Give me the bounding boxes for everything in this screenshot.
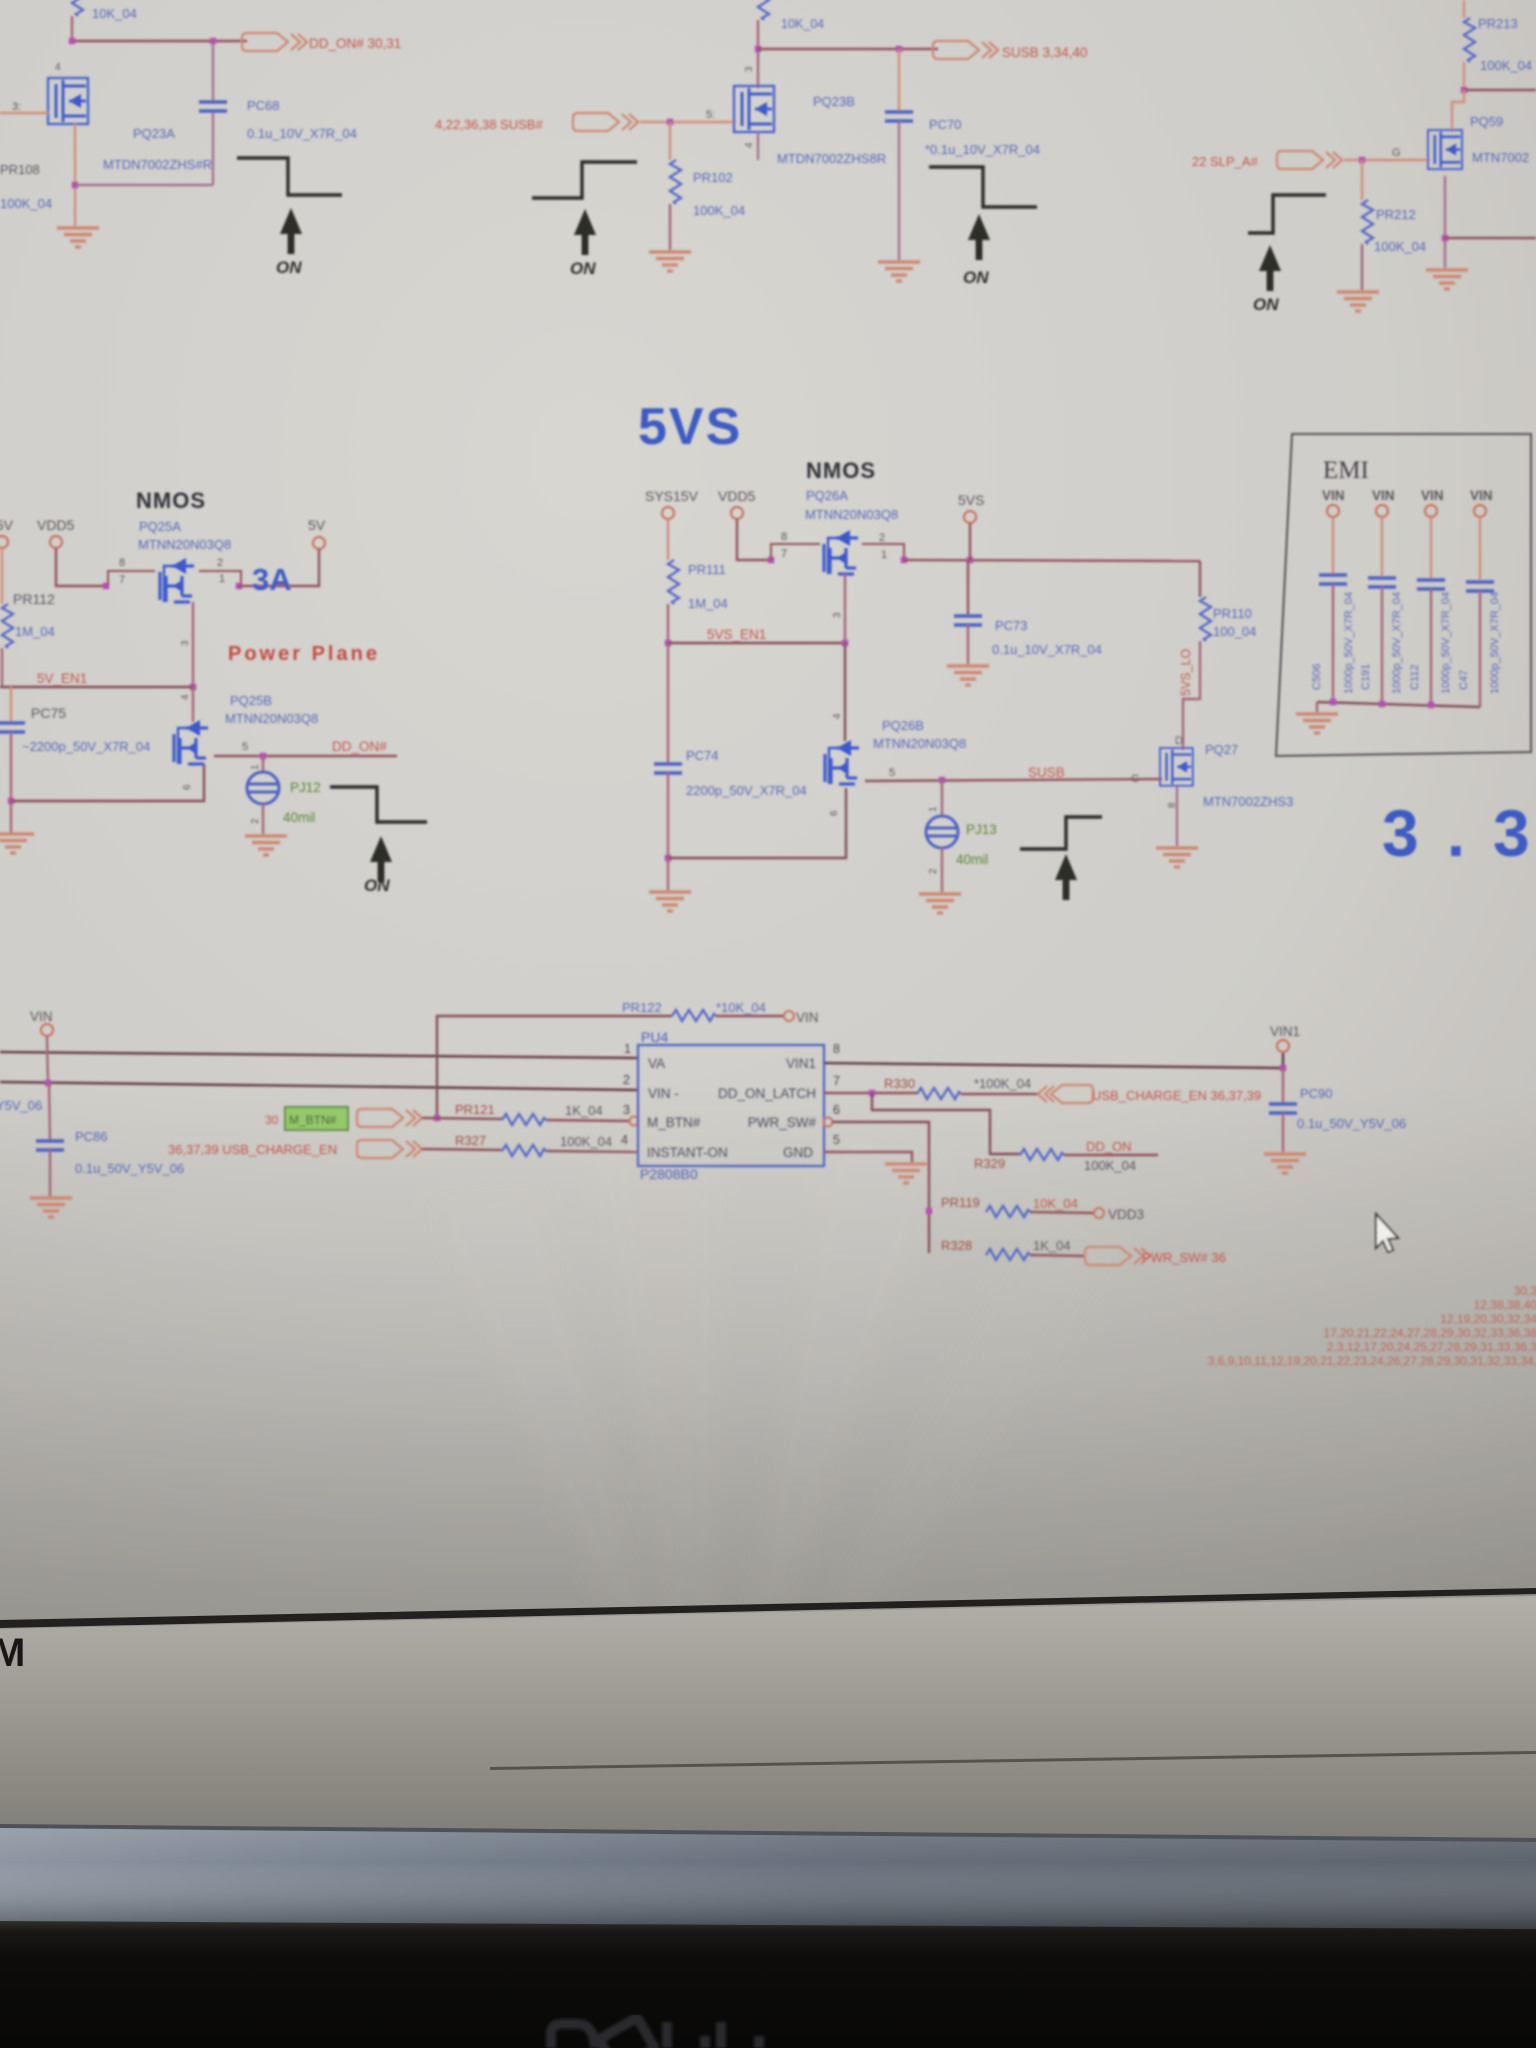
connector SUSB out	[933, 41, 1088, 60]
connector SUSB# input	[573, 113, 638, 131]
capacitor PC68	[199, 98, 357, 141]
terminal SYS15V	[662, 507, 674, 519]
wire cap bottom vertical	[212, 112, 214, 185]
ground PC90	[1264, 1154, 1306, 1173]
resistor R328	[941, 1238, 1085, 1260]
node junction PC74 bottom	[665, 855, 671, 861]
waveform falling edge C	[929, 167, 1037, 207]
node junction B	[755, 46, 761, 52]
wire R329 branch	[872, 1093, 1020, 1154]
window bottom edge dark line	[0, 1588, 1536, 1628]
wire vertical to rail	[757, 20, 759, 88]
capacitor PC75	[0, 687, 150, 801]
resistor PR108 labels	[0, 162, 52, 211]
resistor PR213 top right	[1464, 0, 1532, 90]
svg-text:M: M	[0, 1631, 25, 1675]
resistor PR102	[670, 122, 745, 250]
capacitor PC90	[1269, 1068, 1406, 1152]
node junction rail right	[901, 557, 907, 563]
net highlight M_BTN#	[265, 1107, 348, 1130]
pin numbers PQ25A	[119, 557, 225, 586]
resistor PR111	[668, 519, 728, 643]
wire source right	[1445, 237, 1536, 239]
waveform falling edge E	[330, 787, 427, 822]
node junction 5v loop	[236, 583, 242, 589]
resistor R327	[455, 1133, 638, 1156]
terminal VIN1	[1270, 1024, 1300, 1052]
node junction 5VS term	[967, 557, 973, 563]
wire 5VS rail	[904, 560, 1200, 561]
pin labels PU4 left	[647, 1056, 728, 1160]
connector M_BTN#	[357, 1109, 422, 1127]
wire PQ25A drain down	[192, 602, 194, 687]
ON arrow F	[1055, 854, 1077, 900]
wire bottom loop	[75, 184, 213, 186]
node junction gate PQ26B	[842, 640, 848, 646]
taskbar band	[0, 1826, 1536, 1930]
wire pin8 VIN1	[824, 1052, 1283, 1068]
EMI box frame	[1276, 434, 1531, 756]
terminal 15V	[0, 536, 8, 548]
node junction right rail	[1461, 87, 1467, 93]
waveform falling edge A	[237, 158, 342, 195]
wire pin1 bus	[0, 1052, 638, 1058]
wire net 5V_EN1	[0, 686, 193, 689]
terminal VIN 4	[1474, 505, 1486, 517]
wire PQ25B drain right	[214, 755, 397, 757]
node junction left	[69, 38, 75, 44]
ON arrow D	[1259, 245, 1281, 291]
transistor PQ27	[1131, 742, 1293, 809]
capacitor C191	[1360, 517, 1403, 704]
wire PQ23B down	[757, 132, 759, 160]
ON arrow E	[370, 836, 392, 882]
ground PC86	[30, 1198, 72, 1217]
capacitor PC86	[36, 1083, 184, 1197]
wire PC70 down	[898, 121, 900, 260]
schematic layer inserted here	[0, 0, 1536, 1368]
ground PC74	[649, 892, 691, 911]
node junction bus 3	[1428, 702, 1434, 708]
wire 5VS terminal stub	[969, 523, 971, 560]
wire net 5VS_EN1	[668, 642, 845, 645]
node junction PC75 bottom	[8, 798, 14, 804]
wire top-left horizontal	[72, 40, 247, 42]
monitor bezel	[0, 1921, 1536, 2048]
terminal 5V	[313, 537, 325, 549]
ground PR212	[1337, 292, 1379, 311]
DELL logo (partially cut at bottom)	[551, 2017, 759, 2048]
sheet reference list	[1208, 1284, 1536, 1368]
pin bubble 6	[824, 1118, 833, 1127]
resistor PR112 labels	[13, 591, 55, 639]
pin numbers PU4	[621, 1042, 840, 1147]
terminal VDD3	[1094, 1207, 1144, 1222]
ground EMI	[1296, 714, 1338, 733]
wire M_BTN#	[422, 1118, 502, 1119]
transistor PQ26B	[825, 718, 966, 816]
ON arrow C	[968, 214, 990, 260]
wire pin2 bus	[0, 1082, 638, 1090]
via PJ13	[926, 780, 997, 892]
op-amp PU4 box	[638, 1029, 824, 1182]
wire pin6 down	[832, 1122, 929, 1253]
wire PC74 ground	[667, 858, 669, 890]
node 15V VDD5 labels	[0, 517, 75, 533]
resistor top (10K_04)	[758, 0, 824, 31]
resistor top-left (10K_04)	[72, 0, 137, 21]
node junction vdd5	[103, 583, 109, 589]
wire down to PQ59	[1452, 90, 1464, 132]
transistor PQ26A	[824, 530, 858, 574]
wire USB_CHARGE_EN	[422, 1149, 502, 1150]
wire top-left vertical	[71, 16, 73, 41]
terminal VIN 3	[1425, 505, 1437, 517]
node junction bus 1	[1330, 699, 1336, 705]
mouse cursor	[1376, 1214, 1398, 1252]
capacitor PC70	[885, 112, 1040, 157]
wire gate B	[640, 121, 736, 123]
wire mosfet A down	[74, 124, 76, 226]
node junction PJ13	[939, 777, 945, 783]
ground PC70	[878, 262, 920, 281]
light streaks	[420, 1120, 1140, 1800]
pin loop right PQ25A	[199, 571, 241, 586]
connector USB_CHARGE_EN out	[1038, 1085, 1093, 1103]
ground PQ27	[1156, 848, 1198, 867]
ground PU4	[885, 1164, 927, 1183]
waveform rising edge F	[1020, 817, 1102, 849]
terminal VIN 2	[1376, 505, 1388, 517]
waveform rising edge D	[1248, 195, 1326, 233]
pin labels PU4 right	[718, 1056, 817, 1160]
wire PQ59 source down	[1444, 176, 1446, 268]
resistor PR110	[1183, 561, 1256, 750]
pin numbers PQ26A	[781, 531, 887, 561]
node VIN labels emi	[1322, 488, 1493, 503]
resistor PR112 (left edge)	[2, 548, 13, 687]
capacitor C506	[1311, 517, 1355, 702]
terminal VIN small	[784, 1010, 819, 1025]
ON arrow B	[574, 209, 596, 255]
terminal VDD5	[50, 536, 62, 548]
transistor PQ25A labels	[138, 519, 231, 552]
connector PWR_SW# out	[1085, 1247, 1150, 1265]
transistor PQ25B	[174, 693, 318, 790]
node junction VIN/pin2	[45, 1080, 51, 1086]
transistor PQ25A	[160, 558, 194, 602]
node junction 5VS_EN1 left	[665, 640, 671, 646]
wire cap top stub	[212, 41, 214, 102]
transistor PQ59	[1428, 114, 1529, 169]
capacitor C47	[1458, 517, 1501, 707]
wire PQ26A drain down	[844, 574, 846, 643]
connector USB_CHARGE_EN in	[357, 1140, 422, 1158]
wire bus to ground	[1316, 702, 1318, 712]
ground PQ59	[1426, 270, 1468, 289]
ground PJ12	[245, 836, 287, 855]
node junction M_BTN wire	[434, 1115, 440, 1121]
wire PQ27 source down	[1176, 786, 1178, 846]
resistor PR212	[1362, 160, 1426, 290]
node junction cap top	[210, 38, 216, 44]
node junction VIN1	[1280, 1065, 1286, 1071]
node junction PR212	[1359, 157, 1365, 163]
wire EMI ground bus	[1317, 702, 1480, 707]
node junction pin7	[869, 1090, 875, 1096]
ground PJ13	[919, 894, 961, 913]
wire PC70 vertical	[898, 49, 900, 112]
node junction bus 2	[1379, 701, 1385, 707]
wire pin7	[824, 1092, 917, 1094]
wire bottom return	[11, 764, 204, 801]
terminal 5VS	[964, 511, 976, 523]
node junction bottom loop	[72, 182, 78, 188]
node junction PR119	[926, 1208, 932, 1214]
connector DD_ON#	[242, 33, 401, 51]
resistor PR121	[455, 1102, 629, 1125]
wire pin5 GND	[824, 1152, 912, 1163]
wire gate left	[0, 112, 48, 114]
transistor PQ23B	[706, 66, 886, 166]
pin loop left PQ26A	[771, 544, 820, 560]
resistor PR122	[437, 1000, 785, 1118]
wire VIN terminal down	[47, 1036, 48, 1083]
capacitor PC73	[954, 560, 1102, 664]
node junction 5V_EN1	[190, 684, 196, 690]
ground A	[57, 228, 99, 247]
waveform rising edge B	[532, 162, 637, 198]
via PJ12	[247, 756, 321, 834]
capacitor PC74	[654, 643, 807, 858]
wire right rail	[1464, 89, 1536, 91]
node junction PJ12	[260, 753, 266, 759]
pin bubble 3	[630, 1117, 639, 1126]
terminal VDD5 center	[731, 507, 743, 519]
wire PC75 to ground	[10, 801, 12, 833]
wire VDD5 down to rail	[737, 519, 769, 560]
wire gate PQ26B	[844, 643, 846, 741]
ON arrow A	[280, 208, 302, 254]
transistor PQ23A	[12, 62, 212, 172]
node junction PC70	[896, 46, 902, 52]
pin loop right PQ26A	[862, 544, 904, 560]
wire to 5V terminal	[239, 549, 319, 586]
wire net SUSB	[865, 779, 1162, 781]
wire gate PQ25B	[192, 687, 194, 722]
resistor PR119	[941, 1195, 1094, 1217]
capacitor C112	[1409, 517, 1452, 705]
ground PC73	[947, 666, 989, 685]
node SYS15V VDD5 labels	[645, 488, 756, 504]
resistor R330	[884, 1076, 1038, 1099]
wire gate PQ59	[1344, 159, 1430, 161]
node junction PR102	[667, 119, 673, 125]
connector SLP_A#	[1277, 151, 1342, 169]
wire bottom return c	[668, 788, 846, 858]
thin separator line	[490, 1751, 1536, 1770]
wire rail B	[758, 48, 938, 50]
ground PC75	[0, 834, 34, 853]
wire VDD5 down	[56, 548, 108, 586]
transistor PQ26A labels	[805, 488, 898, 522]
ground PR102	[649, 252, 691, 271]
pin loop left PQ25A	[108, 571, 155, 586]
resistor R329	[974, 1139, 1158, 1173]
node VIN terminal left	[30, 1009, 53, 1036]
node junction vdd5 c	[768, 557, 774, 563]
terminal VIN 1	[1327, 505, 1339, 517]
node junction source	[1442, 235, 1448, 241]
